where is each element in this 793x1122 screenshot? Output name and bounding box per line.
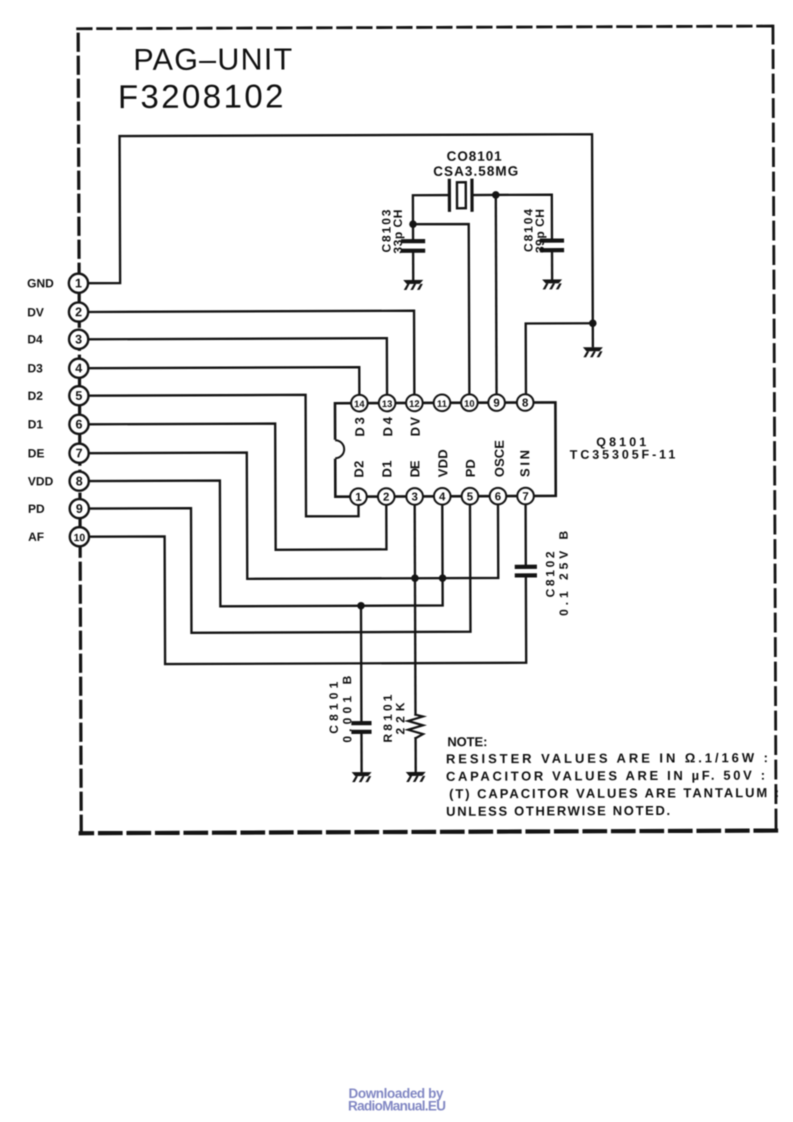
connector pin 6	[69, 415, 88, 434]
connector pin 3	[69, 330, 88, 349]
wire C8104 to ground	[551, 252, 553, 278]
svg-text:VDD: VDD	[435, 449, 450, 477]
svg-text:6: 6	[495, 491, 501, 503]
svg-text:C8101: C8101	[327, 681, 341, 733]
node GND/pin8 junction	[589, 319, 597, 327]
connector pin 1	[69, 274, 88, 293]
pin 8	[517, 394, 534, 411]
connector labels	[27, 276, 55, 544]
pin 5	[462, 488, 479, 505]
svg-text:DV: DV	[27, 305, 44, 319]
svg-text:D4: D4	[27, 332, 43, 346]
svg-text:RadioManual.EU: RadioManual.EU	[348, 1099, 446, 1114]
svg-text:7: 7	[522, 491, 528, 503]
wire IC pin3 lead down to R8101	[414, 503, 417, 714]
footer watermark	[348, 1086, 446, 1114]
svg-text:6: 6	[75, 418, 82, 432]
svg-text:2: 2	[383, 492, 389, 504]
node DE/pin3 junction	[411, 574, 419, 582]
svg-text:8: 8	[76, 474, 83, 488]
svg-text:PD: PD	[463, 459, 478, 477]
svg-text:9: 9	[76, 502, 83, 516]
wire DV: conn2 to IC pin12	[87, 311, 414, 398]
ground symbol (C8103)	[403, 280, 423, 290]
wire GND net: conn1 right, up, across top, down right side	[87, 134, 593, 325]
svg-text:CO8101: CO8101	[447, 149, 503, 164]
svg-text:D3: D3	[27, 361, 43, 375]
svg-text:14: 14	[354, 398, 365, 409]
capacitor C8102 plates	[517, 567, 535, 576]
wire C8103 top lead	[412, 224, 414, 239]
node VDD/C8101 junction	[357, 602, 365, 610]
pin 11	[434, 394, 451, 411]
svg-text:10: 10	[464, 398, 474, 409]
capacitor C8104 plates	[542, 241, 562, 251]
pin 10	[461, 394, 478, 411]
pin 6	[490, 488, 507, 505]
node resonator/pin9 junction	[492, 191, 500, 199]
IC pin numbers 1-14	[354, 397, 529, 503]
connector pin 9	[70, 499, 89, 518]
connector pin 7	[69, 444, 88, 463]
svg-text:PD: PD	[28, 502, 45, 516]
svg-text:4: 4	[75, 361, 82, 375]
svg-text:DE: DE	[407, 460, 422, 477]
svg-text:11: 11	[437, 398, 447, 409]
connector pin numbers	[73, 276, 86, 544]
svg-text:39p CH: 39p CH	[533, 209, 547, 253]
svg-text:D2: D2	[351, 461, 366, 478]
wire D2: conn5 to IC pin1	[88, 395, 359, 518]
connector pin 5	[69, 386, 88, 405]
wire resonator left to C8103 node	[413, 195, 449, 224]
pin 2	[378, 488, 395, 505]
pin 9	[488, 394, 505, 411]
svg-text:AF: AF	[28, 530, 44, 544]
wire C8101 to ground	[360, 734, 362, 771]
svg-text:TC35305F-11: TC35305F-11	[570, 447, 676, 461]
svg-text:UNLESS OTHERWISE NOTED.: UNLESS OTHERWISE NOTED.	[446, 803, 670, 819]
resonator CO8101 body	[449, 180, 472, 210]
wire R8101 to ground	[414, 738, 416, 771]
svg-text:D2: D2	[28, 389, 44, 403]
svg-text:4: 4	[439, 491, 446, 503]
svg-text:NOTE:: NOTE:	[447, 734, 487, 749]
svg-text:CAPACITOR VALUES ARE IN µF. 50: CAPACITOR VALUES ARE IN µF. 50V :	[446, 768, 765, 784]
svg-text:13: 13	[382, 398, 392, 409]
svg-text:9: 9	[493, 398, 499, 410]
node C8103/pin10 junction	[409, 220, 417, 228]
ground symbol (C8101)	[352, 772, 372, 782]
svg-text:8: 8	[522, 397, 529, 409]
IC pin circles bottom row	[350, 394, 534, 505]
pin 4	[434, 488, 451, 505]
capacitor C8101 plates	[353, 723, 369, 732]
svg-text:3: 3	[411, 492, 417, 504]
resistor R8101 22K zigzag	[408, 715, 423, 739]
svg-text:PAG–UNIT: PAG–UNIT	[133, 42, 292, 77]
ground symbol (C8104)	[542, 279, 562, 289]
wire C8102 to IC pin7	[524, 503, 527, 565]
wire VDD: conn8 to IC pin4	[88, 480, 443, 607]
svg-text:5: 5	[75, 389, 82, 403]
wire C8103 to ground	[412, 253, 414, 279]
wire AF: conn10 to C8102	[88, 535, 526, 664]
svg-text:33p CH: 33p CH	[391, 210, 405, 254]
border frame dashed	[78, 26, 776, 833]
svg-text:2: 2	[75, 305, 82, 319]
svg-text:5: 5	[467, 491, 474, 503]
wire C8103 node to IC pin10	[413, 224, 469, 396]
svg-text:GND: GND	[27, 276, 54, 290]
pin 7	[517, 488, 534, 505]
svg-text:3: 3	[75, 333, 82, 347]
svg-text:12: 12	[409, 398, 419, 409]
svg-text:22K: 22K	[393, 702, 407, 734]
pin 12	[406, 395, 423, 412]
wire GND branch to IC pin8	[526, 323, 593, 396]
svg-text:SIN: SIN	[517, 450, 532, 477]
svg-text:VDD: VDD	[28, 474, 54, 488]
pin 3	[406, 488, 423, 505]
svg-text:D1: D1	[379, 461, 394, 478]
svg-text:CSA3.58MG: CSA3.58MG	[433, 164, 518, 179]
capacitor C8103 plates	[403, 241, 423, 251]
wire DE: conn7 across to IC pin6 riser	[88, 452, 498, 580]
ground symbol (GND net)	[583, 347, 603, 357]
pin 1	[350, 488, 367, 505]
connector pin 10	[70, 527, 89, 546]
node pin4 junction	[439, 574, 447, 582]
connector pin 4	[69, 359, 88, 378]
wire D1: conn6 to IC pin2	[88, 423, 387, 550]
svg-text:DV: DV	[408, 417, 423, 437]
wire C8101 top lead	[360, 606, 363, 721]
wire D4: conn3 to IC pin13	[87, 338, 387, 397]
svg-text:OSCE: OSCE	[492, 440, 507, 477]
connector pin 2	[69, 302, 88, 321]
svg-text:D1: D1	[28, 417, 44, 431]
connector pin 8	[70, 471, 89, 490]
svg-text:1: 1	[355, 492, 362, 504]
svg-text:7: 7	[76, 446, 83, 460]
pin 13	[379, 395, 396, 412]
connector pins column	[69, 274, 89, 547]
ground symbol (R8101)	[406, 772, 426, 782]
IC Q8101 body	[332, 402, 556, 496]
wire D3: conn4 to IC pin14	[87, 367, 359, 397]
svg-text:DE: DE	[28, 446, 45, 460]
wire resonator right to pin9 riser and C8104	[472, 195, 552, 239]
pin 14	[351, 395, 368, 412]
wire PD: conn9 to IC pin5	[88, 503, 470, 633]
junction dots	[356, 191, 598, 610]
wire GND stub to ground	[592, 323, 594, 346]
svg-text:C8102: C8102	[543, 551, 557, 597]
note text	[446, 733, 779, 819]
wire IC pin9 riser	[495, 195, 498, 396]
svg-text:1: 1	[75, 276, 82, 290]
svg-text:10: 10	[74, 532, 86, 544]
